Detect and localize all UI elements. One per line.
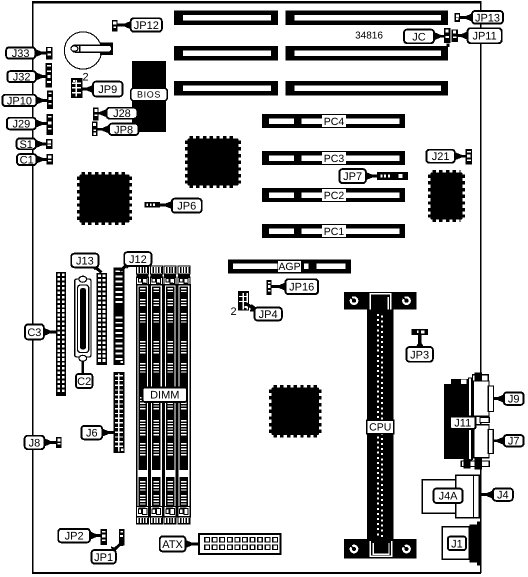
svg-text:CPU: CPU [369,422,391,434]
svg-text:J13: J13 [76,255,94,267]
svg-text:JP13: JP13 [475,12,500,24]
svg-text:PC3: PC3 [324,153,345,165]
svg-text:PC4: PC4 [324,116,345,128]
svg-text:JP3: JP3 [410,349,429,361]
svg-text:J4A: J4A [439,491,459,503]
svg-text:JP10: JP10 [7,95,32,107]
svg-text:ATX: ATX [162,539,183,551]
svg-text:J6: J6 [86,428,98,440]
svg-text:PC1: PC1 [324,226,345,238]
svg-text:J1: J1 [451,538,463,550]
svg-text:AGP: AGP [278,261,300,273]
svg-text:PC2: PC2 [324,190,345,202]
svg-text:2: 2 [82,72,88,84]
svg-text:C2: C2 [77,376,91,388]
svg-text:JP6: JP6 [177,201,196,213]
svg-text:JP11: JP11 [472,31,496,43]
svg-text:J21: J21 [432,151,450,163]
svg-text:J9: J9 [508,394,520,406]
svg-text:JP7: JP7 [343,171,362,183]
svg-text:JP1: JP1 [94,552,113,564]
svg-text:JP8: JP8 [114,124,133,136]
svg-text:DIMM: DIMM [150,390,179,402]
svg-text:J12: J12 [129,254,147,266]
svg-text:JP12: JP12 [134,20,159,32]
svg-text:JP2: JP2 [65,531,84,543]
svg-text:J32: J32 [13,72,31,84]
svg-text:C1: C1 [20,155,34,167]
svg-text:JC: JC [412,31,426,43]
svg-text:J28: J28 [113,108,131,120]
svg-text:J33: J33 [12,48,30,60]
svg-text:JP9: JP9 [98,84,117,96]
svg-text:34816: 34816 [355,30,383,41]
svg-text:JP4: JP4 [259,309,278,321]
svg-text:J7: J7 [508,436,520,448]
svg-text:2: 2 [230,306,236,318]
svg-text:J29: J29 [12,119,30,131]
svg-text:C3: C3 [27,327,41,339]
svg-text:J11: J11 [454,418,471,430]
svg-text:BIOS: BIOS [137,90,161,100]
svg-text:JP16: JP16 [289,282,314,294]
svg-text:J4: J4 [497,490,509,502]
svg-text:S1: S1 [19,139,32,151]
svg-text:J8: J8 [29,437,41,449]
